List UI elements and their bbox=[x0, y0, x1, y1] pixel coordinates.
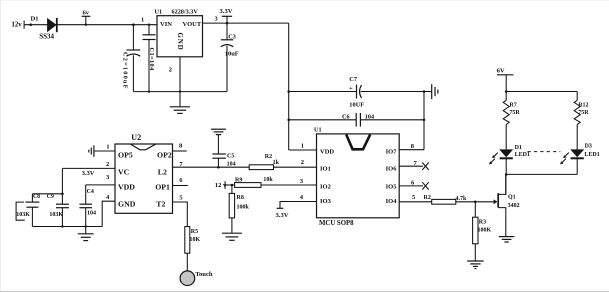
svg-text:R9: R9 bbox=[235, 178, 242, 184]
capacitor C1 bbox=[143, 24, 156, 92]
wire cluster bottom rail bbox=[32, 226, 102, 228]
ground below R8 bbox=[222, 233, 242, 240]
op-amp chip U2 box bbox=[106, 133, 183, 214]
wire Q1 collector from rail bbox=[505, 174, 507, 194]
node junction bbox=[61, 193, 64, 196]
svg-text:6228/3.3V: 6228/3.3V bbox=[172, 8, 199, 15]
wire R2 to Q1 base bbox=[456, 201, 494, 203]
wire VC vertical bbox=[61, 168, 63, 204]
svg-text:C9: C9 bbox=[47, 194, 54, 200]
capacitor C7 bbox=[349, 76, 364, 109]
svg-text:R7: R7 bbox=[509, 102, 516, 108]
wire MCU pin1 VDD bbox=[289, 149, 317, 151]
svg-text:D1: D1 bbox=[515, 145, 522, 151]
ground sideways right of C7 bbox=[424, 84, 438, 99]
wire U2 pin1 bbox=[94, 150, 115, 152]
wire L2 row U2 pin7 to MCU pin2 bbox=[173, 166, 317, 169]
wire 3.3V vertical trunk bbox=[288, 23, 290, 150]
regulator U1 box bbox=[141, 8, 218, 73]
capacitor C9 bbox=[47, 194, 69, 227]
ground below regulator bbox=[170, 107, 190, 114]
svg-text:C6: C6 bbox=[342, 114, 350, 121]
svg-text:R2: R2 bbox=[265, 154, 272, 160]
resistor R9 10k bbox=[235, 177, 274, 187]
svg-text:C5: C5 bbox=[227, 154, 234, 160]
wire MCU pin5 to R2 bbox=[399, 201, 432, 203]
svg-text:GND: GND bbox=[118, 200, 136, 209]
svg-text:IO1: IO1 bbox=[320, 165, 331, 172]
svg-text:IO3: IO3 bbox=[320, 198, 332, 205]
svg-text:L2: L2 bbox=[158, 168, 167, 177]
wire R9 to MCU pin3 bbox=[261, 184, 317, 186]
wire C6 rail bbox=[287, 119, 425, 122]
svg-text:C4: C4 bbox=[87, 189, 94, 195]
ground below R3 bbox=[467, 261, 483, 269]
svg-text:OP2: OP2 bbox=[157, 151, 172, 160]
svg-text:R12: R12 bbox=[578, 102, 588, 108]
svg-text:LED1: LED1 bbox=[584, 152, 599, 158]
power flag 3.3V bbox=[220, 8, 233, 24]
svg-text:C1=104: C1=104 bbox=[148, 48, 155, 72]
svg-text:IO7: IO7 bbox=[386, 149, 398, 156]
wire IO7 pin8 to rail bbox=[423, 92, 425, 150]
ground below Q1 emitter bbox=[499, 237, 515, 242]
svg-text:VC: VC bbox=[118, 168, 130, 177]
svg-text:104: 104 bbox=[87, 211, 96, 217]
svg-text:VIN: VIN bbox=[160, 21, 172, 28]
diode D1 bbox=[31, 16, 57, 41]
MCU pin numbers bbox=[300, 143, 418, 202]
node junction bbox=[61, 225, 63, 227]
svg-text:R5: R5 bbox=[191, 229, 198, 235]
svg-text:IO5: IO5 bbox=[386, 183, 398, 190]
svg-text:6v: 6v bbox=[83, 9, 90, 16]
wire VOUT rail bbox=[203, 22, 289, 24]
capacitor C8 bbox=[16, 194, 40, 227]
transistor Q1 3402 bbox=[494, 174, 520, 236]
svg-text:3: 3 bbox=[215, 15, 218, 22]
svg-text:IO6: IO6 bbox=[386, 165, 398, 172]
wire U2 pin3 VDD with 3.3V label bbox=[82, 170, 115, 185]
wire C7 rail bbox=[287, 90, 425, 93]
wire U2 pin5 T2 down bbox=[173, 202, 188, 227]
svg-text:VDD: VDD bbox=[118, 183, 135, 192]
svg-text:1: 1 bbox=[106, 144, 109, 151]
svg-text:103K: 103K bbox=[16, 212, 30, 218]
power input 12v mid bbox=[215, 181, 235, 189]
wire ground rail below regulator bbox=[133, 91, 227, 93]
wire MCU pin8 bbox=[399, 149, 424, 151]
svg-text:10k: 10k bbox=[263, 177, 273, 183]
svg-text:100k: 100k bbox=[237, 205, 250, 211]
no-connect X on MCU pin7 bbox=[399, 163, 429, 170]
svg-text:R2: R2 bbox=[424, 195, 431, 201]
svg-text:C2=100uF: C2=100uF bbox=[122, 52, 129, 90]
capacitor C6 bbox=[342, 113, 374, 127]
MCU pin labels bbox=[320, 149, 397, 205]
svg-text:104: 104 bbox=[227, 161, 236, 167]
svg-text:Touch: Touch bbox=[195, 271, 213, 278]
wire main 6v rail bbox=[24, 24, 157, 26]
capacitor C2 bbox=[122, 23, 141, 91]
wire LED bottom rail bbox=[505, 158, 577, 175]
svg-text:U1: U1 bbox=[314, 127, 322, 134]
wire to C8 bbox=[32, 193, 62, 195]
node junction bbox=[148, 90, 150, 92]
svg-text:T2: T2 bbox=[156, 200, 165, 209]
resistor R2 4.7k bbox=[424, 195, 468, 204]
svg-text:10uF: 10uF bbox=[225, 50, 239, 57]
touch pad bbox=[180, 271, 213, 286]
resistor R12 75R bbox=[574, 92, 589, 150]
svg-text:IO2: IO2 bbox=[320, 183, 331, 190]
svg-text:100K: 100K bbox=[478, 228, 492, 234]
node junction bbox=[474, 201, 477, 204]
svg-text:VDD: VDD bbox=[320, 149, 334, 156]
power flag 6V right bbox=[497, 67, 514, 91]
svg-text:103K: 103K bbox=[49, 212, 63, 218]
svg-text:1: 1 bbox=[141, 16, 144, 23]
capacitor C5 bbox=[212, 135, 235, 168]
LED D3 bbox=[560, 144, 600, 165]
svg-text:10UF: 10UF bbox=[349, 102, 364, 109]
svg-text:3.3V: 3.3V bbox=[276, 212, 289, 219]
svg-text:IO4: IO4 bbox=[386, 198, 398, 205]
svg-text:C8: C8 bbox=[33, 194, 40, 200]
svg-text:75R: 75R bbox=[578, 110, 589, 116]
svg-text:75R: 75R bbox=[509, 110, 520, 116]
resistor R7 75R bbox=[503, 92, 520, 150]
no-connect X on MCU pin6 bbox=[399, 182, 429, 189]
power flag 6v bbox=[82, 9, 91, 26]
wire regulator pin2 to ground bbox=[179, 57, 181, 107]
MCU U1 SOP8 box bbox=[314, 127, 399, 228]
capacitor C4 bbox=[79, 185, 96, 234]
wire U2 pin4 GND bbox=[102, 201, 115, 226]
capacitor C3 bbox=[221, 23, 239, 92]
svg-text:SS34: SS34 bbox=[39, 33, 54, 41]
ground above C5 (inverted) bbox=[211, 129, 226, 134]
svg-text:4.7k: 4.7k bbox=[456, 196, 468, 202]
wire MCU pin4 to 3.3V flag bbox=[276, 202, 317, 219]
svg-text:3402: 3402 bbox=[508, 203, 520, 209]
ground below C4 bbox=[78, 234, 94, 241]
svg-text:D1: D1 bbox=[31, 16, 39, 23]
svg-text:MCU SOP8: MCU SOP8 bbox=[319, 220, 354, 227]
svg-text:+: + bbox=[349, 85, 353, 92]
svg-text:3.3V: 3.3V bbox=[220, 8, 233, 15]
svg-text:OP1: OP1 bbox=[155, 183, 170, 192]
power input 12v bbox=[12, 21, 25, 29]
svg-text:104: 104 bbox=[365, 114, 374, 121]
svg-text:LED1: LED1 bbox=[515, 152, 530, 158]
node junction bbox=[29, 23, 32, 26]
resistor R8 100k bbox=[229, 185, 249, 233]
svg-text:10K: 10K bbox=[190, 237, 201, 243]
svg-text:1: 1 bbox=[301, 143, 304, 150]
svg-text:GND: GND bbox=[176, 33, 184, 51]
svg-text:2: 2 bbox=[169, 67, 172, 74]
svg-text:3.3V: 3.3V bbox=[82, 170, 95, 177]
svg-text:U2: U2 bbox=[131, 133, 141, 142]
svg-text:R3: R3 bbox=[479, 219, 486, 225]
svg-text:U1: U1 bbox=[155, 8, 163, 15]
svg-text:Q1: Q1 bbox=[508, 194, 516, 200]
resistor R3 100K bbox=[473, 202, 492, 261]
svg-text:6V: 6V bbox=[497, 67, 505, 74]
wire U2 pin2 VC bbox=[62, 167, 115, 169]
wire U2 pin8 stub bbox=[173, 150, 187, 152]
MCU notch mark bbox=[346, 135, 370, 150]
node junction bbox=[179, 90, 181, 92]
svg-text:D3: D3 bbox=[585, 144, 592, 150]
svg-text:OP5: OP5 bbox=[118, 151, 133, 160]
svg-text:VOUT: VOUT bbox=[183, 21, 202, 28]
ground sideways left of U2 pin1 bbox=[89, 145, 94, 156]
resistor R5 10K bbox=[185, 227, 201, 271]
svg-text:C7: C7 bbox=[349, 76, 358, 83]
wire LED top rail bbox=[505, 90, 577, 93]
dashed link between LEDs bbox=[528, 151, 561, 153]
svg-text:R8: R8 bbox=[237, 195, 244, 201]
svg-text:12v: 12v bbox=[12, 22, 23, 29]
node junction bbox=[85, 225, 87, 227]
resistor R6 1k bbox=[249, 154, 279, 170]
LED D1 bbox=[489, 145, 530, 165]
svg-text:1k: 1k bbox=[273, 160, 280, 166]
wire U2 pin6 stub bbox=[173, 185, 188, 187]
